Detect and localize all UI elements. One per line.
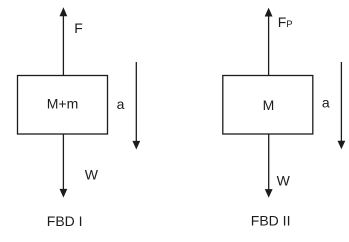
svg-text:F: F xyxy=(74,20,83,36)
acceleration a arrow (down) xyxy=(135,62,137,143)
svg-text:M: M xyxy=(263,97,275,113)
force FP arrow (up) xyxy=(268,15,270,76)
FBD I block (M+m) xyxy=(18,76,108,135)
svg-text:a: a xyxy=(117,96,125,112)
svg-text:a: a xyxy=(322,95,330,111)
svg-text:W: W xyxy=(277,173,291,189)
acceleration a arrow (down) xyxy=(340,62,342,142)
svg-text:FP: FP xyxy=(278,14,293,30)
svg-text:M+m: M+m xyxy=(47,96,79,112)
weight W arrow (down) xyxy=(62,134,64,191)
svg-text:FBD II: FBD II xyxy=(251,213,291,229)
FBD II block (M) xyxy=(223,76,313,135)
weight W arrow (down) xyxy=(268,134,270,191)
svg-text:W: W xyxy=(85,167,99,183)
svg-text:FBD I: FBD I xyxy=(47,213,83,229)
force F arrow (up) xyxy=(62,15,64,76)
